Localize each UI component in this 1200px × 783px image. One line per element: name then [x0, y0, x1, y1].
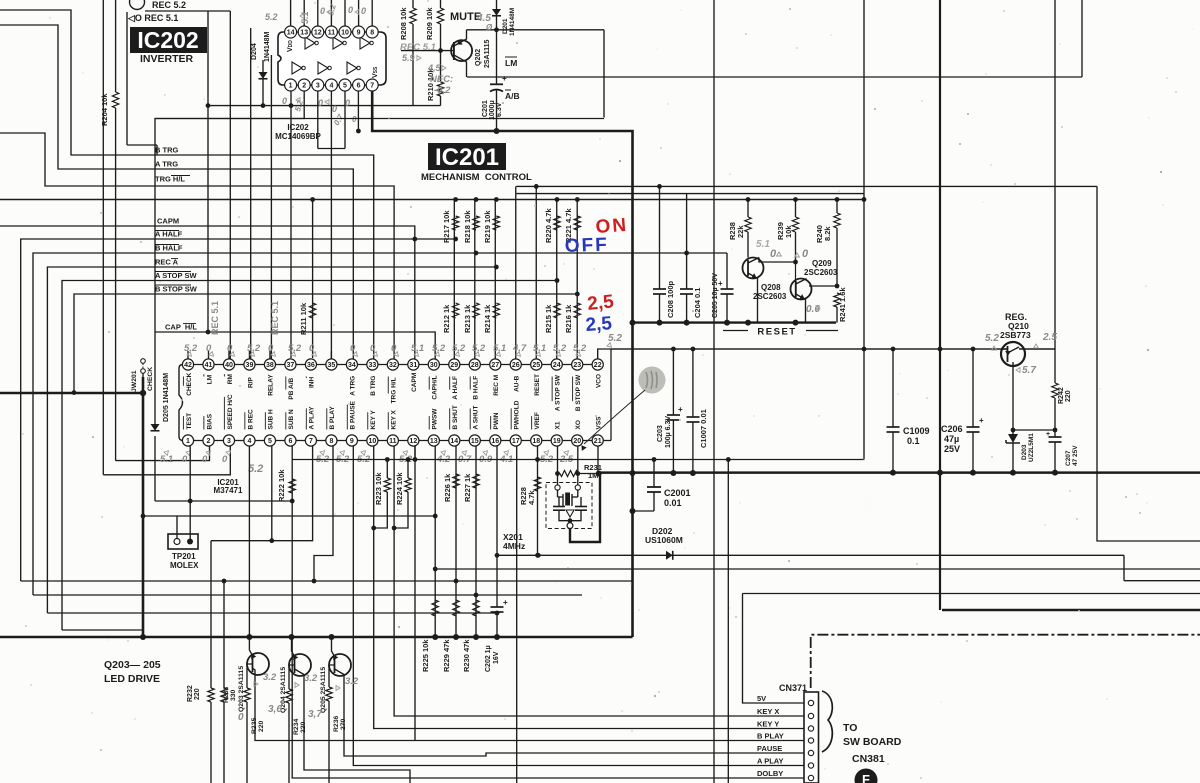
svg-text:35: 35 — [327, 362, 335, 369]
svg-text:LM: LM — [505, 58, 517, 68]
wire IC201 pin38 up — [270, 55, 272, 359]
wire pin19 X1 down to crystal — [557, 446, 559, 485]
crystal X201 dashed box — [546, 483, 592, 529]
svg-text:C205 10µ 50V: C205 10µ 50V — [712, 273, 719, 318]
svg-text:4MHz: 4MHz — [503, 541, 525, 551]
handwritten row below IC201 pins — [160, 454, 173, 465]
wire Q208 collector to Q209 base — [759, 258, 796, 263]
svg-text:3,7: 3,7 — [308, 709, 322, 720]
svg-text:R215 1k: R215 1k — [544, 304, 553, 333]
svg-text:KEY Y: KEY Y — [370, 410, 377, 430]
IC202 outline wires — [126, 12, 128, 145]
thick ground bus y=637 — [0, 636, 633, 639]
wire pin10 KEY Y line — [374, 446, 804, 729]
svg-text:8: 8 — [329, 438, 333, 445]
resistor R222 10k — [289, 479, 295, 493]
svg-text:R214 1k: R214 1k — [483, 304, 492, 333]
svg-text:D204: D204 — [251, 43, 258, 60]
svg-text:31: 31 — [409, 362, 417, 369]
transistor Q209 2SC2603 — [791, 279, 812, 300]
svg-text:11: 11 — [389, 438, 397, 445]
svg-text:220: 220 — [300, 721, 307, 733]
wire pin7 down to y=540.7 — [211, 446, 313, 541]
ground triangle in crystal block — [566, 510, 574, 517]
svg-text:NEC:: NEC: — [430, 74, 453, 85]
svg-text:5: 5 — [268, 438, 272, 445]
wire Q209 collector to R241 — [809, 285, 837, 287]
svg-text:R217 10k: R217 10k — [442, 210, 451, 243]
handwritten row above IC201 pins — [184, 343, 198, 354]
svg-text:R204 10k: R204 10k — [100, 93, 109, 126]
Q203 label — [238, 666, 245, 712]
svg-text:6.3V: 6.3V — [496, 102, 503, 117]
svg-text:38: 38 — [266, 362, 274, 369]
vertical wire x=115 with resistor R204 — [115, 0, 117, 92]
wire IC201 pin36 up to bus — [312, 200, 314, 359]
svg-text:8.2k: 8.2k — [823, 226, 832, 241]
svg-text:VSS: VSS — [372, 66, 379, 78]
wire pin18 VREF down through R228 — [537, 446, 539, 555]
svg-text:34: 34 — [348, 362, 356, 369]
svg-text:PB A/B: PB A/B — [288, 378, 295, 400]
transistor Q210 2SB773 regulator — [1001, 342, 1025, 366]
svg-text:40: 40 — [225, 362, 233, 369]
svg-text:22: 22 — [594, 362, 602, 369]
resistor R233 330 — [223, 581, 225, 688]
wire pin16 down through C202 — [496, 446, 498, 607]
svg-text:0: 0 — [182, 454, 188, 465]
capacitor C207 47u 25V — [1054, 430, 1056, 437]
line y=193.6 middle — [516, 193, 864, 195]
svg-text:2: 2 — [302, 83, 306, 90]
svg-text:37: 37 — [287, 362, 295, 369]
REC 5.2 net bubble — [130, 0, 145, 10]
A/B overline label — [505, 89, 511, 91]
svg-text:47µ: 47µ — [944, 434, 959, 444]
svg-text:CAPH/L: CAPH/L — [432, 375, 439, 399]
svg-text:5.2: 5.2 — [472, 343, 486, 354]
svg-text:14: 14 — [450, 438, 458, 445]
LM overline label — [505, 56, 517, 58]
wire y=501 from D205 to right — [155, 500, 292, 502]
svg-text:+: + — [979, 416, 984, 425]
svg-text:1: 1 — [289, 83, 293, 90]
svg-text:5.2: 5.2 — [248, 463, 263, 475]
svg-text:KEY X: KEY X — [757, 707, 779, 716]
long bus y=199.5 across upper area — [0, 199, 864, 201]
resistor R232 220 — [210, 541, 212, 688]
svg-text:CHECK: CHECK — [186, 372, 193, 395]
svg-text:B PAUSE: B PAUSE — [350, 400, 357, 429]
svg-text:C203: C203 — [657, 425, 664, 442]
wire pin8 down to y=555.5 — [314, 446, 333, 581]
svg-text:R235: R235 — [251, 718, 258, 734]
svg-text:R209 10k: R209 10k — [425, 7, 434, 40]
svg-text:D205 1N4148M: D205 1N4148M — [163, 373, 170, 422]
resistor R228 4.7k — [534, 477, 540, 491]
capacitor C201 1000u 6.3V polarized — [496, 30, 498, 85]
thick wire crystal case to VSS — [570, 474, 600, 542]
wire reg rail y=349 — [611, 348, 1001, 350]
svg-text:+: + — [502, 74, 507, 83]
svg-text:16V: 16V — [493, 651, 500, 664]
svg-text:BIAS: BIAS — [206, 413, 213, 429]
svg-text:IC202: IC202 — [137, 27, 198, 53]
svg-text:PWSW: PWSW — [432, 408, 439, 430]
diode D201 1N4148M — [496, 0, 498, 9]
svg-text:SW BOARD: SW BOARD — [843, 736, 902, 748]
capacitor C203 100u 6.3V — [672, 349, 674, 415]
svg-text:5.1: 5.1 — [756, 239, 770, 250]
wire IC202 pin1 down to IC201 pin 37 — [290, 91, 292, 358]
svg-text:A/B: A/B — [505, 91, 520, 101]
wire pin12 down — [414, 446, 416, 741]
resistor R214 1k — [493, 303, 499, 318]
svg-text:2SC2603: 2SC2603 — [753, 292, 787, 301]
svg-text:3: 3 — [227, 438, 231, 445]
svg-text:B REC: B REC — [247, 409, 254, 430]
svg-text:36: 36 — [307, 362, 315, 369]
svg-text:5.1: 5.1 — [300, 11, 310, 24]
svg-text:TO: TO — [843, 722, 857, 734]
svg-text:Q205 2SA1115: Q205 2SA1115 — [320, 667, 327, 713]
svg-text:25: 25 — [532, 362, 540, 369]
capacitor C1009 0.1 — [892, 349, 894, 427]
capacitor C1007 0.01 — [692, 349, 694, 417]
capacitor C202 1u 16V — [491, 606, 504, 608]
wire REC A to IC201 pin 27 and down to y=613 — [47, 267, 496, 613]
svg-text:INH: INH — [309, 377, 316, 389]
Q204 label — [280, 667, 287, 713]
thick VSS route from IC202 pin7 — [372, 91, 632, 637]
wire pin13 down through R225 — [434, 446, 436, 637]
svg-text:+: + — [678, 405, 683, 414]
wire pin3 line y=474.8 — [103, 446, 230, 475]
resistor R239 10k — [795, 200, 797, 218]
thick line y=610 right — [942, 609, 1200, 611]
svg-text:5V: 5V — [757, 694, 766, 703]
resistor R209 10k — [440, 0, 442, 8]
svg-text:US1060M: US1060M — [645, 535, 683, 545]
svg-text:0.01: 0.01 — [664, 498, 682, 508]
transistor Q205 2SA1115 — [329, 654, 351, 676]
svg-text:B STOP SW: B STOP SW — [155, 285, 198, 294]
svg-text:R222 10k: R222 10k — [277, 469, 286, 502]
transistor Q202 2SA1115 — [451, 40, 472, 61]
svg-text:2,5: 2,5 — [586, 291, 615, 315]
wire IC201 pin25 up to line y=186 — [535, 186, 537, 359]
svg-text:16: 16 — [491, 438, 499, 445]
svg-text:R234: R234 — [293, 719, 300, 735]
svg-text:12: 12 — [409, 438, 417, 445]
svg-text:F: F — [862, 772, 870, 783]
svg-text:29: 29 — [450, 362, 458, 369]
svg-text:REC M: REC M — [493, 375, 500, 396]
svg-text:C201: C201 — [482, 100, 489, 117]
svg-text:0.1: 0.1 — [907, 436, 920, 446]
svg-text:MOLEX: MOLEX — [170, 561, 199, 570]
svg-text:Q203 2SA1115: Q203 2SA1115 — [238, 666, 245, 712]
svg-text:2,5: 2,5 — [585, 313, 613, 336]
svg-text:0: 0 — [282, 96, 287, 106]
svg-text:X1: X1 — [555, 421, 562, 429]
crystal X201 symbol — [557, 490, 559, 497]
svg-text:SUB N: SUB N — [288, 409, 295, 430]
capacitor C208 100p — [659, 186, 661, 289]
vertical x=1097 from line 186 — [1097, 186, 1200, 541]
svg-text:0: 0 — [318, 98, 323, 108]
svg-text:XO: XO — [575, 420, 582, 429]
svg-text:21: 21 — [594, 438, 602, 445]
svg-text:DOLBY: DOLBY — [757, 769, 783, 778]
resistor R241 1.6k — [834, 293, 840, 307]
long vertical x=864 — [863, 0, 865, 460]
wire pair vertical x=728 — [727, 460, 729, 783]
svg-text:MC14069BP: MC14069BP — [275, 132, 321, 141]
svg-text:C208 100p: C208 100p — [666, 280, 675, 318]
long vertical wire x=105 to pin3 line — [102, 0, 104, 475]
IC202 top pins 14-8 — [285, 26, 297, 38]
svg-text:100µ 6.3V: 100µ 6.3V — [665, 416, 672, 448]
diode D202 US1060M — [497, 554, 1124, 556]
svg-text:19: 19 — [553, 438, 561, 445]
svg-text:10: 10 — [341, 30, 349, 37]
svg-text:10: 10 — [368, 438, 376, 445]
svg-text:B TRG: B TRG — [155, 146, 178, 155]
wire A TRG from left edge to IC201 pin 34 — [0, 25, 353, 359]
svg-text:+: + — [503, 598, 508, 607]
svg-text:3.2: 3.2 — [304, 673, 318, 684]
svg-text:2SB773: 2SB773 — [1000, 330, 1031, 340]
svg-text:R241 1.6k: R241 1.6k — [838, 287, 847, 322]
svg-text:1N4148M: 1N4148M — [509, 8, 516, 36]
svg-text:2.5: 2.5 — [1042, 332, 1057, 343]
svg-text:0: 0 — [352, 115, 357, 124]
line y=516 TP201 — [143, 515, 435, 517]
svg-text:SPEED H/C: SPEED H/C — [227, 394, 234, 429]
wire A STOP SW to IC201 pin 24 and down to y=630 — [62, 281, 557, 631]
svg-text:C1007 0.01: C1007 0.01 — [699, 409, 708, 448]
svg-text:Q203— 205: Q203— 205 — [104, 659, 161, 671]
resistor R218 10k — [473, 216, 479, 230]
crystal load capacitors — [558, 497, 560, 507]
svg-text:Q202: Q202 — [475, 49, 482, 66]
line y=186.4 from pin26 to right — [516, 185, 1097, 187]
svg-text:REC 5.1: REC 5.1 — [400, 42, 436, 53]
svg-text:4: 4 — [248, 438, 252, 445]
svg-text:R236: R236 — [333, 716, 340, 732]
resistor R240 8.2k — [836, 200, 838, 214]
svg-text:R/P: R/P — [247, 377, 254, 389]
svg-text:5.1: 5.1 — [160, 454, 173, 465]
long thick vertical x=940 — [939, 0, 941, 610]
svg-text:R225 10k: R225 10k — [421, 639, 430, 672]
svg-text:330: 330 — [230, 689, 237, 701]
wire pin20 XO down to crystal — [577, 446, 579, 485]
wire Q204 base with resistor R234 — [289, 665, 295, 689]
svg-text:5.2: 5.2 — [288, 343, 302, 354]
wire pin1 TEST down to TP201 — [189, 446, 191, 541]
svg-text:9: 9 — [350, 438, 354, 445]
svg-text:C2001: C2001 — [664, 488, 691, 498]
resistor R210 10k — [437, 82, 443, 96]
svg-text:26: 26 — [512, 362, 520, 369]
resistor R211 10k — [309, 303, 315, 318]
svg-text:VDD: VDD — [287, 40, 294, 52]
line y=593.5 right segment — [743, 593, 1200, 595]
svg-text:VCO: VCO — [596, 374, 603, 388]
svg-text:PWIN: PWIN — [493, 412, 500, 429]
svg-text:AU-B: AU-B — [514, 375, 521, 392]
svg-text:1M: 1M — [588, 471, 598, 480]
IC202 label box — [130, 27, 207, 53]
svg-text:220: 220 — [194, 688, 201, 700]
pin stub wires IC201 top — [187, 351, 189, 359]
crystal X201 terminals — [555, 485, 560, 490]
svg-text:0: 0 — [238, 712, 244, 723]
resistor R217 10k — [452, 216, 458, 230]
svg-text:5.2: 5.2 — [573, 343, 587, 354]
svg-text:0: 0 — [332, 104, 337, 114]
svg-text:15: 15 — [471, 438, 479, 445]
svg-text:3.2: 3.2 — [345, 676, 359, 687]
svg-text:R218 10k: R218 10k — [463, 210, 472, 243]
svg-text:VREF: VREF — [534, 412, 541, 429]
svg-text:13: 13 — [430, 438, 438, 445]
handwritten marks LED drive — [263, 672, 277, 683]
resistor R223 10k pull-up — [386, 460, 388, 479]
svg-text:2: 2 — [207, 438, 211, 445]
svg-text:RM: RM — [227, 374, 234, 384]
svg-text:1000µ: 1000µ — [489, 100, 496, 120]
svg-text:A PLAY: A PLAY — [309, 406, 316, 430]
wire IC201 pin26 up to line y=186 — [515, 186, 517, 359]
staircase line y=595 — [33, 594, 582, 596]
svg-text:5.2: 5.2 — [985, 333, 999, 344]
handwritten levels near IC202 — [265, 12, 278, 22]
wire pin12 stub — [414, 446, 416, 460]
svg-text:23: 23 — [573, 362, 581, 369]
line y=569 from R225 — [435, 568, 1200, 570]
wire pin14 down through R226 R229 — [455, 446, 457, 637]
svg-text:17: 17 — [512, 438, 520, 445]
svg-text:20: 20 — [573, 438, 581, 445]
wire B TRG from left edge to IC201 pin 33 — [0, 10, 374, 359]
stepped wire right end of D202 line — [1123, 555, 1125, 580]
svg-text:C202 1µ: C202 1µ — [485, 645, 492, 672]
svg-text:25V: 25V — [944, 444, 960, 454]
dash-dot board boundary — [811, 635, 1200, 688]
wire B STOP SW to IC201 pin 23 — [74, 294, 577, 393]
wire pin9 to A PLAY line — [353, 446, 804, 766]
capacitor C204 0.1 — [686, 253, 688, 289]
wire IC201 pin39 up — [250, 28, 252, 359]
grey REC 5.1 annotations vertical — [210, 301, 220, 335]
svg-text:3,6: 3,6 — [268, 704, 282, 715]
svg-text:R224 10k: R224 10k — [395, 472, 404, 505]
IC201 bottom pin row 1-21 — [182, 435, 193, 446]
svg-text:MECHANISM CONTROL: MECHANISM CONTROL — [421, 172, 532, 183]
svg-text:9: 9 — [357, 30, 361, 37]
handwritten notes near Q202 — [400, 42, 436, 53]
svg-text:220: 220 — [258, 720, 265, 732]
wires top pins 30-23 up to bus 199.5 with resistors — [453, 200, 455, 360]
thick ground bus y=393 left — [0, 392, 143, 395]
svg-text:R213 1k: R213 1k — [463, 304, 472, 333]
wire mute collector line y=77 — [467, 76, 1082, 78]
staircase line y=630 — [62, 629, 143, 631]
resistor R230 47k — [473, 600, 479, 616]
svg-text:R211 10k: R211 10k — [299, 302, 308, 335]
transistor Q204 2SA1115 — [289, 654, 311, 676]
wire CAP H/L to IC201 pin 30 — [155, 332, 435, 359]
thick wire VSS to right bus — [599, 471, 1200, 474]
resistor R227 1k — [473, 474, 479, 488]
svg-text:◁O REC 5.1: ◁O REC 5.1 — [127, 13, 178, 23]
wire C204 vertical upper — [686, 194, 688, 253]
svg-text:270: 270 — [340, 718, 347, 730]
svg-text:2SC2603: 2SC2603 — [804, 268, 838, 277]
svg-text:3: 3 — [316, 83, 320, 90]
resistor R242 220 — [1054, 349, 1056, 383]
Q205 label — [320, 667, 327, 713]
svg-text:5.2: 5.2 — [184, 343, 198, 354]
svg-text:C206: C206 — [941, 424, 963, 434]
foil marker disc — [855, 769, 878, 783]
svg-text:R242: R242 — [1058, 387, 1065, 404]
resistor R220 4.7k — [554, 216, 560, 230]
handwritten 5.2 2.5 5.7 near Q210 — [985, 333, 999, 344]
blue annotation OFF — [564, 234, 609, 257]
svg-text:0: 0 — [202, 454, 208, 465]
svg-text:5.2: 5.2 — [432, 343, 446, 354]
IC201 top pin row 42-22 — [182, 359, 193, 370]
crystal case ground circle — [569, 521, 571, 523]
CN371 connector body — [804, 692, 819, 783]
svg-text:14: 14 — [287, 30, 295, 37]
svg-text:A HALF: A HALF — [452, 376, 459, 400]
svg-text:C204 0.1: C204 0.1 — [693, 288, 702, 318]
thick vertical bus x=632.5 dots — [630, 320, 636, 326]
svg-text:13: 13 — [300, 30, 308, 37]
svg-text:R219 10k: R219 10k — [483, 210, 492, 243]
vertical wire x=1082 top right — [1081, 0, 1083, 77]
svg-text:SUB H: SUB H — [268, 409, 275, 430]
svg-text:4,5: 4,5 — [427, 63, 442, 73]
red annotation ON — [595, 215, 629, 238]
svg-text:-0,2: -0,2 — [434, 85, 451, 96]
long vertical x=1055 — [1054, 0, 1056, 349]
svg-text:TEST: TEST — [186, 413, 193, 430]
svg-text:RELAY: RELAY — [268, 374, 275, 396]
IC202 inverter gates — [305, 37, 315, 49]
svg-text:0: 0 — [770, 248, 777, 260]
diode D204 1N4148M — [262, 60, 264, 106]
svg-text:A STOP SW: A STOP SW — [555, 374, 562, 411]
svg-text:UZ2L5M1: UZ2L5M1 — [1028, 433, 1035, 462]
svg-text:VSS: VSS — [596, 416, 603, 430]
resistor R231 1M across crystal — [558, 473, 561, 475]
svg-text:PWHOLD: PWHOLD — [514, 400, 521, 429]
wire pin5 down to y=540.7 — [271, 446, 273, 541]
svg-text:C207: C207 — [1065, 450, 1072, 466]
wire base rail y=430 — [1013, 429, 1055, 431]
svg-text:24: 24 — [553, 362, 561, 369]
svg-text:R226 1k: R226 1k — [443, 473, 452, 502]
svg-text:R232: R232 — [187, 685, 194, 702]
svg-text:B TRG: B TRG — [370, 376, 377, 396]
svg-text:5.2: 5.2 — [265, 12, 278, 22]
